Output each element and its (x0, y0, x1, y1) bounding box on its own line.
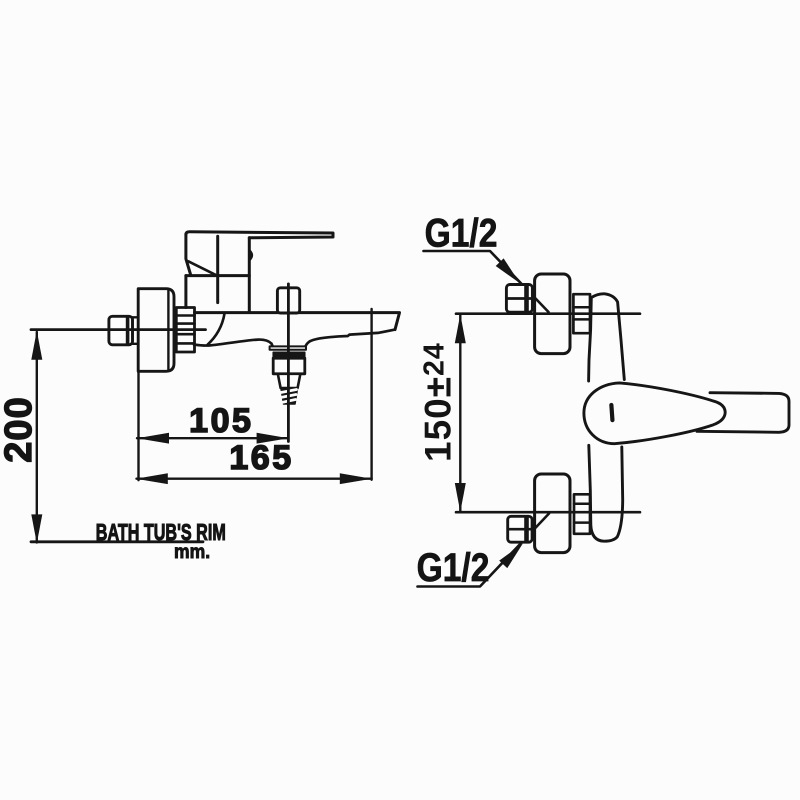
svg-text:G1/2: G1/2 (417, 545, 490, 589)
top union axis extension line (456, 312, 640, 315)
extension line from flange bottom (137, 371, 139, 480)
dimension 150+-24 line and arrows (455, 314, 466, 512)
center line through diverter and hose (287, 284, 290, 442)
svg-text:G1/2: G1/2 (425, 211, 498, 255)
extension line at spout outlet (370, 309, 372, 480)
body neck and arch (589, 294, 625, 381)
mixer handle (side) (186, 232, 333, 275)
shower hose connector under spout (270, 346, 306, 388)
svg-text:165: 165 (229, 439, 293, 477)
bottom union axis extension line (456, 511, 640, 514)
wall hex nut (side) (109, 316, 133, 345)
washer between nut and flange (133, 317, 139, 344)
shower hose coil (281, 389, 298, 405)
wall center axis line (31, 328, 206, 331)
threaded connector ring stack (176, 308, 194, 353)
diverter knob on spout (277, 288, 299, 313)
top G1/2 leader line (424, 251, 549, 312)
bottom G1/2 leader line (418, 514, 550, 587)
top leader arrowhead (496, 258, 524, 287)
svg-text:200: 200 (0, 396, 40, 462)
bath tub rim line (31, 540, 203, 543)
bottom hex nut (508, 516, 532, 542)
bottom leader arrowhead (499, 539, 527, 568)
wall flange (escutcheon, side) (138, 289, 174, 372)
bottom union rings (574, 494, 590, 534)
handle grip cone (front) (584, 383, 725, 444)
body foot (589, 445, 623, 541)
dimension 200 vertical line and arrows (31, 331, 42, 544)
lever blade (front) (697, 393, 789, 433)
top union rings (573, 294, 590, 333)
handle slot mark (609, 403, 615, 423)
svg-text:mm.: mm. (174, 540, 210, 562)
dimension 165 line and arrows (136, 473, 372, 484)
top wall union (535, 274, 570, 354)
cartridge body block (186, 236, 252, 311)
svg-text:105: 105 (189, 402, 253, 440)
dimension 105 line and arrows (137, 433, 289, 444)
spout (side) (194, 313, 400, 346)
top hex nut (506, 285, 532, 313)
bottom wall union (535, 474, 570, 553)
